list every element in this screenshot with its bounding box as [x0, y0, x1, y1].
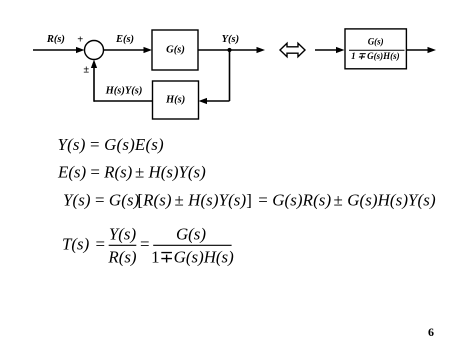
wire: H(s) output back to summing junction — [91, 60, 153, 102]
wire: input R(s) into summing junction — [33, 47, 85, 53]
wire: feedback vertical drop — [229, 50, 231, 101]
svg-text:1∓G(s)H(s): 1∓G(s)H(s) — [151, 247, 234, 266]
svg-text:Y(s): Y(s) — [222, 34, 240, 45]
svg-text:=: = — [140, 234, 150, 253]
svg-text:1∓G(s)H(s): 1∓G(s)H(s) — [351, 51, 400, 61]
block H(s) — [153, 81, 199, 119]
svg-text:H(s)Y(s): H(s)Y(s) — [105, 85, 143, 96]
svg-text:E(s) = R(s) ± H(s)Y(s): E(s) = R(s) ± H(s)Y(s) — [57, 163, 206, 182]
svg-text:Y(s): Y(s) — [109, 225, 137, 244]
wire: output of equivalent block — [406, 47, 436, 53]
svg-text:E(s): E(s) — [115, 34, 134, 45]
svg-text:R(s): R(s) — [107, 247, 137, 266]
equivalence double arrow — [280, 43, 305, 56]
block G(s) — [152, 30, 198, 70]
wire: input to equivalent block — [315, 47, 345, 53]
svg-text:H(s): H(s) — [165, 94, 185, 105]
junction node Y(s) — [227, 48, 231, 52]
svg-text:Y(s) = G(s)[R(s) ± H(s)Y(s)] =: Y(s) = G(s)[R(s) ± H(s)Y(s)] = G(s)R(s) … — [63, 191, 436, 210]
wire: feedback into H(s) — [199, 98, 230, 104]
block G(s)/(1-+G(s)H(s)) — [345, 29, 406, 69]
svg-text:G(s): G(s) — [368, 37, 384, 47]
svg-text:G(s): G(s) — [176, 225, 206, 244]
svg-text:R(s): R(s) — [46, 34, 65, 45]
summing junction — [85, 41, 104, 60]
wire: summing junction to G(s) — [104, 47, 153, 53]
svg-text:+: + — [77, 35, 83, 46]
svg-text:±: ± — [83, 65, 89, 76]
svg-text:T(s) =: T(s) = — [62, 234, 105, 253]
wire: G(s) output to Y(s) — [198, 47, 265, 53]
svg-text:G(s): G(s) — [166, 44, 185, 55]
svg-text:6: 6 — [428, 325, 434, 339]
svg-text:Y(s) = G(s)E(s): Y(s) = G(s)E(s) — [58, 135, 165, 154]
equation T(s)=Y(s)/R(s)=G(s)/(1-+G(s)H(s)) — [62, 225, 234, 267]
